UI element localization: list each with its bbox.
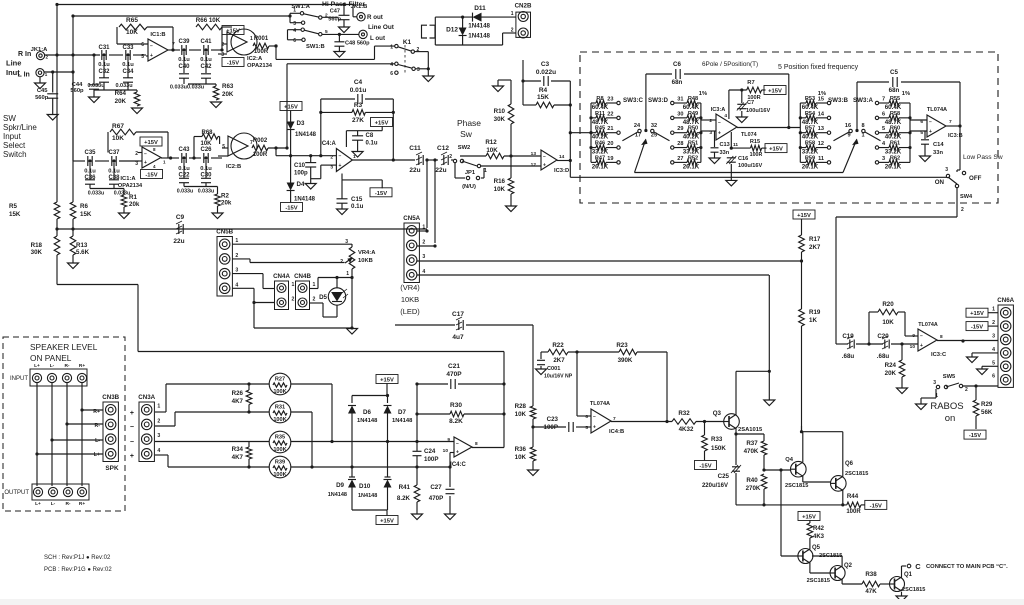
svg-text:1: 1 — [292, 282, 295, 288]
svg-text:3: 3 — [330, 165, 333, 171]
svg-text:R5: R5 — [9, 203, 17, 210]
svg-text:R10: R10 — [494, 108, 506, 115]
svg-text:R48: R48 — [688, 96, 698, 102]
svg-text:20K: 20K — [885, 370, 897, 377]
svg-text:11: 11 — [733, 142, 738, 148]
svg-text:C8: C8 — [366, 133, 374, 139]
svg-text:+15V: +15V — [226, 29, 240, 35]
svg-text:R16: R16 — [494, 178, 506, 185]
svg-text:R58: R58 — [805, 141, 815, 147]
svg-text:IC3:D: IC3:D — [554, 168, 569, 174]
svg-text:8: 8 — [153, 147, 156, 152]
svg-text:5: 5 — [992, 360, 995, 366]
svg-text:R34: R34 — [232, 446, 244, 453]
svg-text:on: on — [945, 413, 956, 424]
svg-text:10K: 10K — [126, 29, 138, 36]
svg-text:+15V: +15V — [144, 140, 158, 146]
svg-text:2: 2 — [235, 253, 238, 259]
svg-text:+: + — [920, 343, 923, 349]
svg-text:15K: 15K — [80, 211, 92, 218]
svg-text:D3: D3 — [297, 120, 305, 127]
svg-text:−: − — [593, 414, 596, 420]
svg-text:+: + — [338, 163, 341, 169]
svg-text:+15V: +15V — [768, 89, 782, 95]
svg-text:2: 2 — [221, 42, 224, 48]
svg-text:22u: 22u — [435, 167, 446, 174]
svg-text:C43: C43 — [178, 147, 190, 153]
svg-text:15K: 15K — [537, 94, 549, 101]
svg-text:CN2B: CN2B — [515, 3, 532, 10]
svg-text:IC4:B: IC4:B — [609, 429, 624, 435]
svg-text:1: 1 — [422, 225, 425, 231]
svg-text:TL074A: TL074A — [918, 322, 938, 328]
svg-text:3: 3 — [157, 433, 160, 439]
svg-text:10K: 10K — [494, 186, 506, 193]
svg-text:10u/16V NP: 10u/16V NP — [544, 374, 573, 380]
svg-text:R28: R28 — [515, 403, 527, 410]
svg-text:SPK: SPK — [105, 465, 119, 472]
svg-text:R-: R- — [65, 501, 70, 507]
svg-text:8.2K: 8.2K — [449, 418, 463, 425]
svg-text:R33: R33 — [711, 436, 723, 443]
svg-text:27: 27 — [677, 156, 683, 162]
svg-text:R44: R44 — [847, 493, 859, 500]
svg-text:R18: R18 — [31, 242, 43, 249]
svg-text:R65: R65 — [126, 17, 138, 24]
svg-text:33n: 33n — [933, 150, 943, 156]
svg-text:R29: R29 — [981, 401, 993, 408]
svg-text:100K: 100K — [273, 472, 286, 478]
svg-text:R24: R24 — [885, 362, 897, 369]
svg-text:IC1:B: IC1:B — [150, 32, 165, 38]
svg-text:C31: C31 — [98, 45, 110, 51]
svg-text:R57: R57 — [805, 126, 815, 132]
svg-text:100P: 100P — [424, 456, 438, 463]
svg-text:R2: R2 — [221, 193, 229, 200]
svg-text:PCB : Rev:P1G ● Rev:02: PCB : Rev:P1G ● Rev:02 — [44, 567, 112, 573]
svg-text:R42: R42 — [813, 526, 825, 532]
svg-text:2: 2 — [422, 239, 425, 245]
svg-text:SW3:C: SW3:C — [623, 97, 643, 104]
svg-text:JK1:A: JK1:A — [31, 47, 49, 53]
svg-text:6Pole / 5Position(T): 6Pole / 5Position(T) — [702, 61, 758, 68]
svg-text:C13: C13 — [720, 142, 730, 148]
svg-text:L out: L out — [370, 35, 385, 42]
svg-text:1: 1 — [313, 282, 316, 288]
svg-text:10: 10 — [910, 344, 916, 350]
svg-text:-15V: -15V — [699, 464, 711, 470]
svg-text:0.033u: 0.033u — [87, 83, 104, 89]
svg-text:1N4148: 1N4148 — [294, 197, 316, 203]
svg-text:6: 6 — [585, 414, 588, 420]
svg-text:22u: 22u — [409, 167, 420, 174]
svg-text:10K: 10K — [200, 141, 212, 147]
svg-text:25: 25 — [651, 133, 657, 139]
svg-text:9: 9 — [447, 437, 450, 443]
svg-text:L-: L- — [51, 501, 56, 507]
svg-text:4: 4 — [724, 113, 727, 119]
svg-text:CN3B: CN3B — [102, 394, 119, 401]
svg-text:ON PANEL: ON PANEL — [30, 353, 72, 363]
svg-text:4: 4 — [293, 28, 296, 34]
svg-text:R54: R54 — [805, 111, 816, 117]
svg-text:5: 5 — [141, 54, 144, 60]
svg-text:R20: R20 — [882, 301, 894, 308]
svg-text:R49: R49 — [688, 111, 698, 117]
svg-text:Q4: Q4 — [785, 457, 794, 463]
svg-text:R31: R31 — [275, 405, 285, 411]
svg-text:100R: 100R — [253, 152, 268, 158]
svg-text:R In: R In — [18, 51, 31, 58]
svg-text:1: 1 — [163, 160, 166, 165]
svg-text:-15V: -15V — [227, 61, 239, 67]
svg-text:D7: D7 — [398, 409, 406, 416]
svg-text:R64: R64 — [115, 90, 127, 97]
svg-text:+15V: +15V — [380, 519, 394, 525]
svg-text:5.6K: 5.6K — [76, 249, 90, 256]
svg-text:Input: Input — [3, 132, 22, 141]
svg-text:12: 12 — [531, 162, 537, 168]
svg-text:20k: 20k — [129, 201, 140, 208]
svg-text:C41: C41 — [200, 39, 212, 45]
svg-text:C37: C37 — [108, 150, 120, 156]
svg-text:(LED): (LED) — [400, 307, 420, 316]
svg-text:R8: R8 — [596, 96, 603, 102]
svg-text:CN4B: CN4B — [294, 273, 311, 280]
svg-text:R1: R1 — [129, 194, 137, 201]
svg-text:3: 3 — [135, 161, 138, 167]
svg-text:2: 2 — [157, 418, 160, 424]
svg-text:C35: C35 — [84, 150, 96, 156]
svg-text:1N4148: 1N4148 — [357, 418, 378, 424]
svg-text:−: − — [456, 441, 459, 447]
svg-text:0.01u: 0.01u — [350, 87, 367, 94]
svg-text:3: 3 — [992, 334, 995, 340]
svg-text:R39: R39 — [275, 460, 285, 466]
svg-text:R23: R23 — [616, 342, 628, 349]
svg-text:56K: 56K — [981, 409, 993, 416]
svg-text:CN4A: CN4A — [273, 273, 290, 280]
svg-text:100R: 100R — [846, 509, 861, 515]
svg-text:1N4148: 1N4148 — [328, 492, 347, 498]
svg-text:47K: 47K — [865, 588, 877, 595]
svg-text:−: − — [718, 120, 721, 126]
svg-text:OPA2134: OPA2134 — [118, 183, 143, 189]
svg-text:1: 1 — [157, 404, 160, 410]
svg-text:13: 13 — [818, 126, 824, 132]
svg-text:2SC1815: 2SC1815 — [845, 471, 868, 477]
svg-text:R36: R36 — [515, 446, 527, 453]
svg-text:1: 1 — [346, 271, 349, 277]
svg-text:SW3:D: SW3:D — [648, 97, 668, 104]
svg-text:D4: D4 — [297, 181, 305, 188]
svg-text:C48 560p: C48 560p — [345, 41, 370, 47]
svg-text:R59: R59 — [805, 155, 815, 161]
svg-text:2: 2 — [292, 297, 295, 303]
svg-text:6: 6 — [293, 38, 296, 44]
svg-text:C24: C24 — [424, 448, 436, 455]
svg-text:L+: L+ — [35, 501, 41, 507]
svg-text:100K: 100K — [273, 389, 286, 395]
svg-text:ON: ON — [935, 179, 945, 186]
svg-text:C39: C39 — [178, 39, 190, 45]
svg-text:R37: R37 — [746, 440, 758, 447]
svg-text:SPEAKER LEVEL: SPEAKER LEVEL — [30, 342, 98, 352]
svg-text:R62: R62 — [890, 155, 900, 161]
svg-text:IC1:A: IC1:A — [120, 176, 136, 182]
svg-text:SW4: SW4 — [960, 194, 973, 200]
svg-text:100R: 100R — [750, 152, 763, 158]
svg-text:R-: R- — [64, 363, 69, 369]
svg-text:-15V: -15V — [145, 173, 157, 179]
svg-text:4: 4 — [422, 269, 425, 275]
svg-text:24: 24 — [634, 123, 641, 129]
svg-text:R61: R61 — [890, 141, 900, 147]
svg-text:R+: R+ — [79, 501, 85, 507]
svg-text:9: 9 — [847, 133, 850, 139]
svg-text:C26: C26 — [200, 147, 212, 153]
svg-text:3: 3 — [882, 156, 885, 162]
svg-text:R58: R58 — [890, 111, 900, 117]
svg-text:2SC1815: 2SC1815 — [902, 587, 925, 593]
svg-text:2: 2 — [330, 155, 333, 161]
svg-text:R001: R001 — [254, 36, 269, 42]
svg-text:29: 29 — [677, 126, 683, 132]
svg-text:OFF: OFF — [969, 175, 982, 182]
svg-text:R27: R27 — [275, 377, 285, 383]
svg-text:11: 11 — [818, 156, 824, 162]
svg-text:IC4:A: IC4:A — [320, 141, 336, 147]
svg-text:20K: 20K — [222, 91, 234, 98]
svg-text:C21: C21 — [448, 363, 460, 370]
svg-text:14: 14 — [559, 154, 565, 160]
svg-text:2: 2 — [135, 151, 138, 157]
svg-text:2: 2 — [992, 320, 995, 326]
svg-text:Q2: Q2 — [844, 563, 853, 569]
svg-text:5: 5 — [585, 425, 588, 431]
svg-text:-15V: -15V — [971, 325, 983, 331]
svg-text:CN5A: CN5A — [403, 215, 420, 222]
svg-text:+15V: +15V — [802, 515, 816, 521]
svg-text:C20: C20 — [877, 333, 889, 340]
svg-text:R7: R7 — [747, 80, 754, 86]
svg-text:INPUT: INPUT — [10, 376, 28, 382]
svg-text:Switch: Switch — [3, 150, 27, 159]
svg-text:4: 4 — [390, 62, 393, 68]
svg-text:8: 8 — [861, 123, 864, 129]
svg-text:1: 1 — [390, 44, 393, 50]
svg-text:C19: C19 — [842, 333, 854, 340]
svg-text:C12: C12 — [437, 145, 449, 152]
svg-text:JP1: JP1 — [465, 170, 476, 176]
svg-text:R15: R15 — [750, 139, 760, 145]
svg-text:R out: R out — [367, 14, 383, 21]
svg-text:(VR4): (VR4) — [400, 283, 420, 292]
svg-text:560p: 560p — [35, 95, 49, 101]
svg-text:28: 28 — [677, 141, 683, 147]
svg-text:5: 5 — [222, 144, 225, 150]
svg-text:D12: D12 — [446, 27, 458, 34]
svg-text:3: 3 — [422, 254, 425, 260]
svg-text:R+: R+ — [79, 363, 85, 369]
svg-text:+: + — [456, 449, 459, 455]
svg-text:C27: C27 — [430, 484, 442, 491]
svg-text:R50: R50 — [688, 126, 698, 132]
svg-text:1N4148: 1N4148 — [295, 132, 317, 138]
svg-text:C16: C16 — [738, 156, 748, 162]
svg-text:1: 1 — [250, 36, 253, 42]
svg-text:+15V: +15V — [970, 311, 984, 317]
svg-text:1: 1 — [511, 11, 514, 17]
svg-text:C4: C4 — [354, 79, 363, 86]
svg-text:3: 3 — [293, 21, 296, 27]
svg-text:C7: C7 — [747, 100, 754, 106]
svg-text:L In: L In — [18, 72, 30, 79]
svg-text:CN3A: CN3A — [138, 394, 155, 401]
svg-text:100u/16V: 100u/16V — [746, 108, 771, 114]
svg-text:4K7: 4K7 — [232, 454, 244, 461]
svg-text:C10: C10 — [294, 163, 306, 169]
svg-text:30: 30 — [677, 111, 683, 117]
svg-text:2SC1815: 2SC1815 — [785, 483, 808, 489]
svg-text:2SA1015: 2SA1015 — [738, 427, 763, 433]
svg-text:4: 4 — [157, 448, 160, 454]
svg-text:8: 8 — [475, 441, 478, 447]
svg-text:C001: C001 — [547, 366, 560, 372]
svg-text:CONNECT TO MAIN PCB “C”.: CONNECT TO MAIN PCB “C”. — [926, 564, 1008, 570]
svg-text:7: 7 — [882, 97, 885, 103]
svg-text:+15V: +15V — [380, 378, 394, 384]
svg-text:+: + — [150, 53, 153, 59]
svg-text:IC4:C: IC4:C — [450, 462, 466, 468]
svg-text:R41: R41 — [399, 484, 411, 491]
svg-text:15: 15 — [818, 97, 824, 103]
svg-text:27K: 27K — [352, 117, 364, 124]
svg-text:0.033u: 0.033u — [177, 189, 194, 195]
svg-text:20K: 20K — [115, 98, 127, 105]
svg-text:4u7: 4u7 — [452, 334, 464, 341]
svg-text:26.1K: 26.1K — [885, 163, 902, 170]
svg-text:R30: R30 — [450, 402, 462, 409]
svg-text:14: 14 — [818, 111, 825, 117]
svg-text:68n: 68n — [672, 79, 683, 86]
svg-text:68n: 68n — [889, 87, 900, 94]
svg-text:TL074: TL074 — [741, 132, 757, 138]
svg-text:SW1:B: SW1:B — [306, 44, 325, 50]
svg-text:(N/U): (N/U) — [462, 184, 476, 190]
svg-text:26.1K: 26.1K — [802, 163, 819, 170]
svg-text:R55: R55 — [890, 96, 900, 102]
svg-text:R67: R67 — [112, 123, 124, 130]
svg-text:IC2:B: IC2:B — [226, 164, 241, 170]
svg-text:+15V: +15V — [284, 105, 298, 111]
svg-text:2K7: 2K7 — [809, 244, 821, 251]
svg-text:C9: C9 — [176, 214, 185, 221]
svg-text:−: − — [150, 44, 153, 50]
svg-text:.68u: .68u — [842, 353, 855, 360]
svg-text:+: + — [130, 453, 134, 460]
svg-text:100R: 100R — [254, 49, 269, 55]
svg-text:CN5B: CN5B — [216, 229, 233, 236]
svg-text:0.022u: 0.022u — [536, 69, 556, 76]
svg-text:−: − — [130, 424, 134, 431]
svg-text:2SC1815: 2SC1815 — [807, 578, 830, 584]
svg-text:100p: 100p — [294, 171, 308, 177]
svg-text:C15: C15 — [351, 196, 363, 203]
svg-text:10K: 10K — [515, 454, 527, 461]
svg-text:OPA2134: OPA2134 — [247, 63, 273, 69]
svg-text:-15V: -15V — [375, 191, 387, 197]
svg-text:9: 9 — [912, 333, 915, 339]
svg-text:+: + — [130, 410, 134, 417]
svg-text:R51: R51 — [688, 141, 698, 147]
svg-text:2: 2 — [961, 207, 964, 213]
svg-text:0.033u: 0.033u — [198, 189, 215, 195]
svg-text:17: 17 — [635, 133, 641, 139]
svg-text:R52: R52 — [688, 155, 698, 161]
svg-text:3: 3 — [235, 268, 238, 274]
svg-text:K1: K1 — [403, 39, 412, 46]
svg-text:R53: R53 — [805, 96, 815, 102]
svg-text:L-: L- — [95, 438, 100, 444]
svg-text:−: − — [929, 120, 932, 126]
svg-text:L+: L+ — [34, 363, 40, 369]
svg-text:0.033u: 0.033u — [115, 83, 132, 89]
svg-text:150K: 150K — [711, 445, 726, 452]
svg-text:-15V: -15V — [285, 206, 297, 212]
svg-text:31: 31 — [677, 97, 683, 103]
svg-text:R47: R47 — [595, 155, 605, 161]
svg-text:3: 3 — [417, 67, 420, 73]
svg-text:R22: R22 — [552, 342, 564, 349]
svg-text:1N4148: 1N4148 — [468, 33, 490, 40]
svg-text:SW3:B: SW3:B — [828, 97, 848, 104]
svg-text:+: + — [543, 162, 546, 168]
svg-text:-15V: -15V — [870, 503, 882, 509]
svg-text:4K7: 4K7 — [232, 398, 244, 405]
svg-text:8: 8 — [940, 334, 943, 340]
svg-text:C6: C6 — [673, 61, 681, 68]
svg-text:R46: R46 — [595, 141, 605, 147]
svg-text:20k: 20k — [221, 200, 232, 207]
svg-text:470K: 470K — [744, 448, 759, 455]
svg-text:R4: R4 — [539, 87, 548, 94]
svg-text:Q6: Q6 — [845, 461, 854, 467]
svg-text:3: 3 — [945, 167, 948, 173]
svg-text:SW2: SW2 — [458, 145, 471, 151]
svg-text:1N4148: 1N4148 — [358, 493, 377, 499]
svg-text:D5: D5 — [319, 294, 327, 301]
svg-text:0.033u: 0.033u — [88, 191, 105, 197]
svg-text:R002: R002 — [253, 138, 268, 144]
svg-text:0.033u0.033u: 0.033u0.033u — [170, 85, 204, 91]
svg-text:R19: R19 — [809, 309, 821, 316]
svg-text:Sw: Sw — [460, 129, 473, 139]
svg-text:R38: R38 — [865, 571, 877, 578]
svg-text:20: 20 — [607, 141, 613, 147]
svg-text:6: 6 — [882, 111, 885, 117]
svg-text:6: 6 — [141, 42, 144, 48]
svg-text:Line: Line — [6, 59, 21, 68]
svg-text:SW5: SW5 — [943, 374, 956, 380]
svg-text:−: − — [920, 334, 923, 340]
svg-text:Line Out: Line Out — [368, 24, 395, 31]
svg-text:D11: D11 — [474, 5, 486, 12]
svg-text:R66 10K: R66 10K — [196, 17, 221, 24]
svg-text:22: 22 — [607, 111, 613, 117]
svg-text:R17: R17 — [809, 236, 821, 243]
svg-text:SW3:A: SW3:A — [853, 97, 873, 104]
